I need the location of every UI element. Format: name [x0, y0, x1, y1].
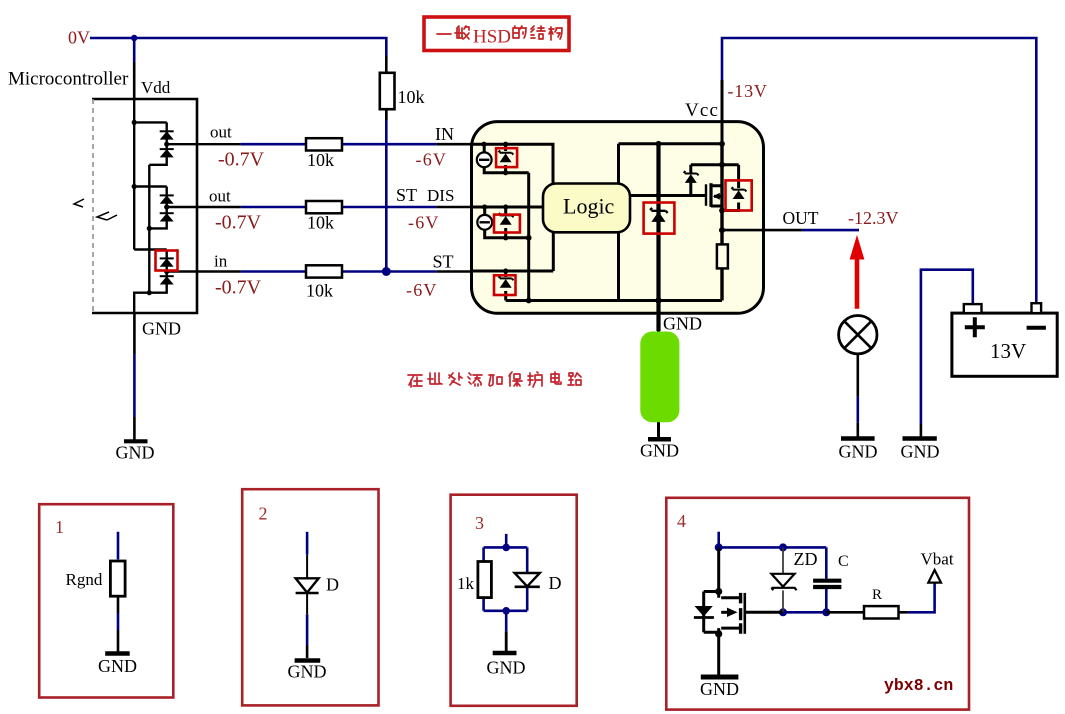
svg-text:D: D [326, 575, 339, 595]
svg-text:-0.7V: -0.7V [215, 277, 262, 299]
svg-text:-12.3V: -12.3V [848, 208, 899, 228]
svg-text:ybx8.cn: ybx8.cn [884, 676, 953, 695]
svg-text:GND: GND [288, 662, 327, 682]
svg-text:HSD: HSD [473, 27, 511, 48]
svg-text:Logic: Logic [563, 194, 615, 219]
svg-text:GND: GND [142, 319, 181, 339]
svg-text:R: R [872, 587, 882, 603]
svg-text:-6V: -6V [406, 280, 438, 300]
svg-text:1k: 1k [457, 574, 475, 593]
svg-text:10k: 10k [398, 87, 425, 107]
svg-text:GND: GND [98, 656, 137, 676]
svg-text:0V: 0V [68, 28, 90, 48]
svg-text:Vcc: Vcc [685, 100, 719, 121]
svg-text:GND: GND [487, 658, 526, 678]
svg-text:1: 1 [55, 517, 64, 537]
svg-text:D: D [549, 573, 562, 593]
svg-text:OUT: OUT [783, 208, 819, 228]
svg-text:-0.7V: -0.7V [218, 149, 265, 171]
svg-text:C: C [838, 553, 849, 570]
svg-text:GND: GND [839, 442, 878, 462]
svg-text:IN: IN [435, 124, 454, 144]
svg-text:13V: 13V [990, 339, 1026, 363]
svg-text:4: 4 [677, 511, 686, 531]
svg-text:GND: GND [663, 314, 702, 334]
svg-text:GND: GND [700, 679, 739, 699]
svg-text:-13V: -13V [728, 81, 768, 101]
svg-text:DIS: DIS [427, 186, 454, 205]
svg-text:GND: GND [116, 443, 155, 463]
svg-text:Vdd: Vdd [141, 78, 171, 97]
svg-text:3: 3 [475, 513, 484, 533]
svg-text:GND: GND [901, 442, 940, 462]
svg-text:ST: ST [396, 185, 417, 205]
svg-text:Rgnd: Rgnd [66, 570, 103, 589]
svg-text:2: 2 [259, 504, 268, 524]
svg-text:ST: ST [433, 252, 454, 272]
svg-text:ZD: ZD [794, 549, 818, 569]
svg-text:10k: 10k [306, 281, 333, 301]
svg-text:Microcontroller: Microcontroller [8, 69, 129, 90]
svg-text:in: in [214, 252, 228, 271]
svg-text:10k: 10k [307, 150, 334, 170]
svg-text:10k: 10k [307, 213, 334, 233]
svg-text:Vbat: Vbat [921, 550, 954, 569]
svg-text:GND: GND [640, 441, 679, 461]
svg-text:-0.7V: -0.7V [215, 212, 262, 234]
svg-text:out: out [210, 123, 232, 142]
svg-text:out: out [209, 187, 231, 206]
svg-text:-6V: -6V [416, 150, 448, 170]
svg-text:-6V: -6V [408, 213, 440, 233]
